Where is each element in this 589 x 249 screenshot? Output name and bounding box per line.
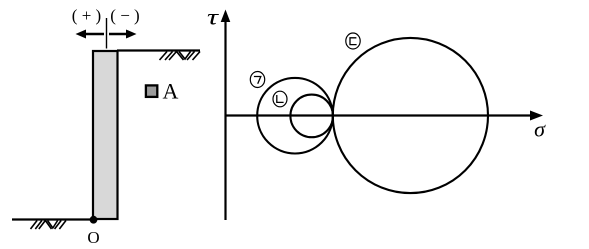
top ground hatch bbox=[160, 52, 201, 61]
divider line between arrows bbox=[106, 18, 108, 49]
svg-text:O: O bbox=[87, 228, 99, 247]
bottom ground line bbox=[12, 218, 93, 220]
svg-text:( − ): ( − ) bbox=[110, 6, 139, 25]
point A square marker bbox=[146, 85, 157, 97]
svg-text:( + ): ( + ) bbox=[72, 6, 101, 25]
Mohr circle 2 (small) bbox=[290, 95, 333, 138]
left arrow (+ direction) bbox=[76, 30, 105, 39]
top ground line bbox=[117, 49, 200, 51]
svg-text:A: A bbox=[163, 79, 179, 104]
label circled-digeut (third circle) bbox=[346, 33, 360, 49]
right arrow (- direction) bbox=[109, 30, 137, 39]
tau axis (vertical) bbox=[224, 18, 226, 220]
bottom ground hatch bbox=[31, 221, 66, 230]
sigma axis (horizontal) bbox=[226, 114, 535, 116]
label circled-giyeok (first circle) bbox=[250, 72, 264, 88]
label circled-nieun (second circle) bbox=[273, 91, 287, 107]
wall (gray retaining wall rectangle) bbox=[93, 51, 118, 219]
svg-text:σ: σ bbox=[534, 117, 546, 142]
Mohr circle 1 (medium) bbox=[257, 78, 333, 154]
svg-text:τ: τ bbox=[207, 5, 219, 30]
Mohr circle 3 (large) bbox=[333, 38, 488, 193]
point O dot bbox=[90, 216, 98, 224]
